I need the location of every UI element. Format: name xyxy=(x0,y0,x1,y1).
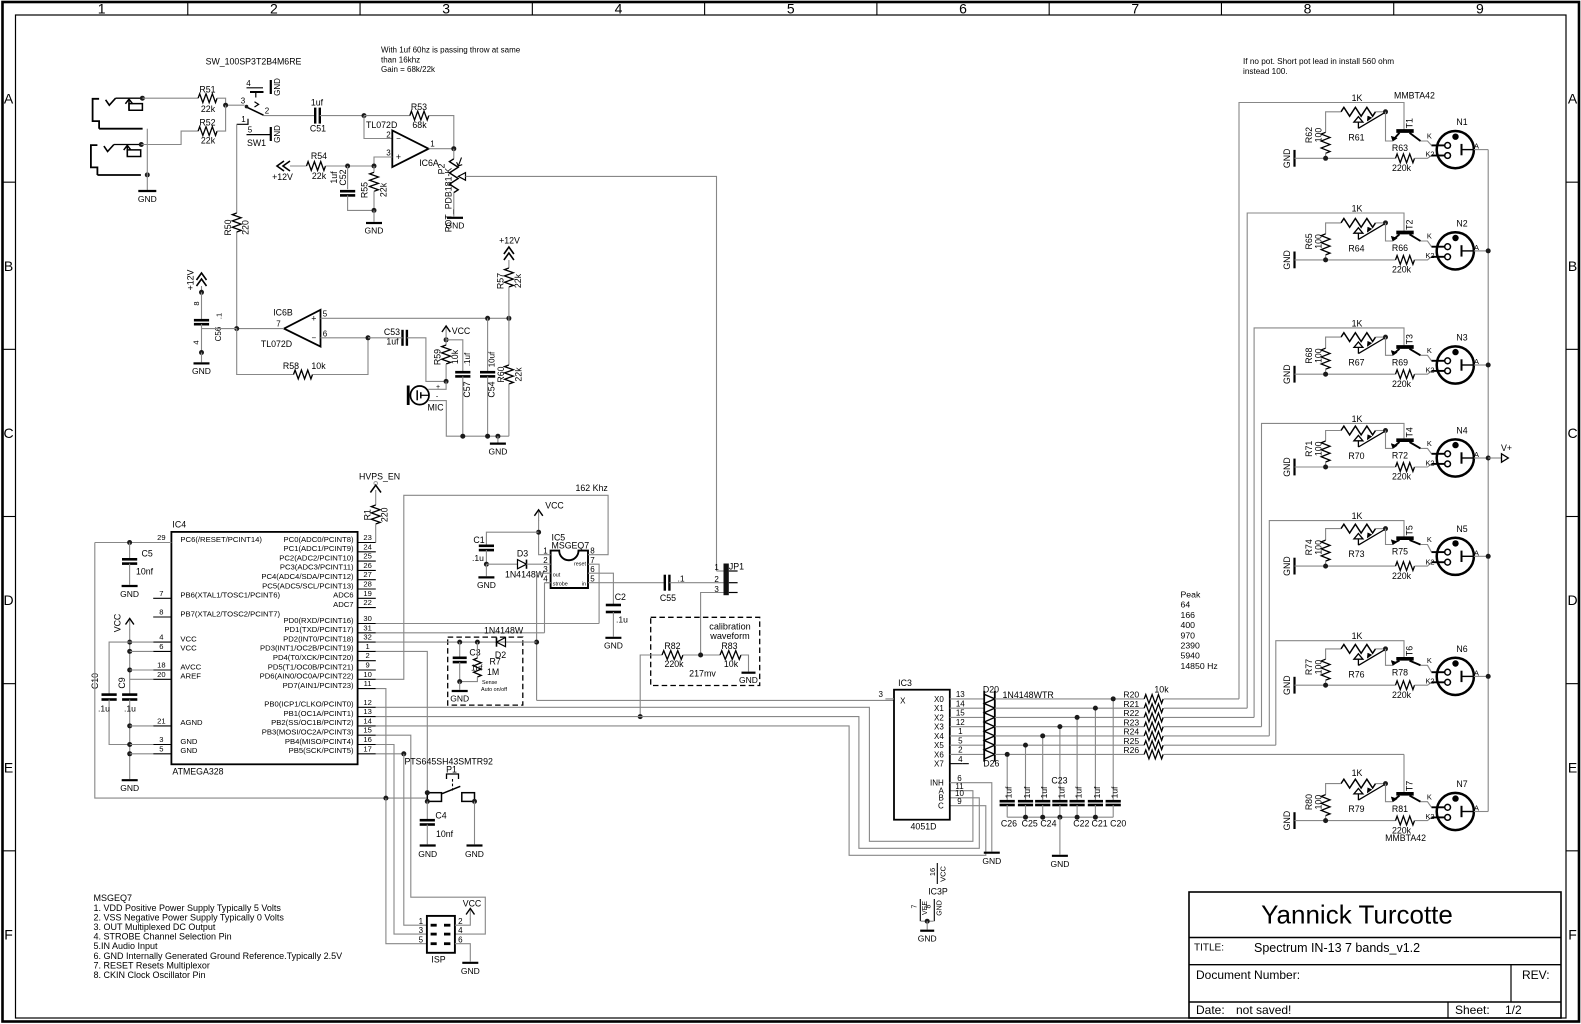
wire IC6A output to node xyxy=(429,148,454,150)
svg-text:GND: GND xyxy=(918,934,937,944)
ground calibration GND xyxy=(742,672,756,674)
svg-text:K2: K2 xyxy=(1425,251,1434,260)
frame column ticks top xyxy=(187,2,189,15)
ic IC5 MSGEQ7 body xyxy=(551,551,588,588)
connector audio jack J1 xyxy=(93,99,100,129)
wire tube anode channel 5 xyxy=(1462,555,1474,557)
node R82 R83 JP1 junction xyxy=(698,653,703,658)
svg-text:C: C xyxy=(938,801,944,810)
node AGND pin21 xyxy=(127,723,132,728)
resistor R26 xyxy=(1144,750,1163,759)
node mic plus xyxy=(444,379,449,384)
svg-text:N5: N5 xyxy=(1456,524,1467,534)
wire R220 to tube K2 channel 7 xyxy=(1415,817,1432,820)
svg-text:R69: R69 xyxy=(1392,358,1408,368)
svg-text:18: 18 xyxy=(157,661,165,670)
svg-text:IC3: IC3 xyxy=(898,678,912,688)
sense auto on-off dashed box xyxy=(448,637,523,705)
ic IC3 4051D body xyxy=(894,690,950,820)
ground jacks GND xyxy=(138,190,156,192)
svg-text:D2: D2 xyxy=(495,650,506,660)
capacitor C23 xyxy=(1059,727,1061,802)
ic IC4 right pin stubs and numbers xyxy=(358,542,376,544)
node IC6B output R50 xyxy=(234,326,239,331)
wire R26 to channel 7 xyxy=(1164,753,1404,755)
svg-text:R64: R64 xyxy=(1348,243,1364,253)
channel 4 top feed wire xyxy=(1262,423,1405,726)
svg-text:D3: D3 xyxy=(517,548,528,558)
svg-text:X7: X7 xyxy=(934,760,944,769)
power VCC flag at R59 xyxy=(445,326,447,337)
svg-text:R81: R81 xyxy=(1392,804,1408,814)
wire IC6B output xyxy=(237,328,284,330)
node R7 tap xyxy=(475,640,480,645)
svg-text:1uf: 1uf xyxy=(1039,786,1049,798)
svg-text:21: 21 xyxy=(157,716,165,725)
svg-text:C52: C52 xyxy=(338,169,348,185)
svg-text:T5: T5 xyxy=(1404,525,1414,535)
wire R220 to tube K2 channel 1 xyxy=(1415,156,1432,159)
svg-text:14: 14 xyxy=(363,716,371,725)
svg-text:K: K xyxy=(1427,439,1432,448)
svg-text:220k: 220k xyxy=(1392,379,1412,389)
wire switch pin2 to C51 xyxy=(264,115,316,117)
ground P2 GND xyxy=(453,193,455,217)
node C54 bottom xyxy=(485,434,490,439)
wire ISP pin2 to VCC xyxy=(455,919,470,926)
svg-text:100: 100 xyxy=(1314,660,1324,675)
svg-text:8. CKIN Clock Oscillator Pin: 8. CKIN Clock Oscillator Pin xyxy=(94,970,206,980)
svg-text:SW_100SP3T2B4M6RE: SW_100SP3T2B4M6RE xyxy=(206,57,302,67)
capacitor C24 xyxy=(1042,736,1044,801)
resistor R22 xyxy=(1144,713,1163,722)
wire jack sleeves to ground xyxy=(146,129,148,191)
wire IC6B pin5 bias rail xyxy=(321,317,509,319)
svg-text:6: 6 xyxy=(323,329,328,338)
wire C51 to opamp input node xyxy=(320,115,364,117)
wire capacitor ground rail xyxy=(1007,816,1113,818)
svg-text:1: 1 xyxy=(365,642,369,651)
svg-text:C51: C51 xyxy=(310,124,326,134)
svg-text:D: D xyxy=(1567,592,1577,608)
svg-text:R67: R67 xyxy=(1348,358,1364,368)
wire collector to tube K channel 4 xyxy=(1421,448,1432,453)
svg-text:3: 3 xyxy=(442,1,450,17)
svg-text:100: 100 xyxy=(1314,540,1324,555)
node R57 R60 junction xyxy=(506,316,511,321)
svg-text:N4: N4 xyxy=(1456,426,1467,436)
ground IC3P GND xyxy=(926,921,928,929)
resistor R20 xyxy=(1144,695,1163,704)
svg-text:F: F xyxy=(1568,926,1577,942)
svg-text:not saved!: not saved! xyxy=(1236,1003,1291,1017)
capacitor C10 xyxy=(109,642,130,695)
svg-text:PD4(T0/XCK/PCINT20): PD4(T0/XCK/PCINT20) xyxy=(273,653,354,662)
svg-text:64: 64 xyxy=(1181,600,1191,610)
svg-text:22k: 22k xyxy=(201,135,216,145)
wire ground rail channel 1 xyxy=(1295,157,1396,159)
node C52 top xyxy=(345,164,350,169)
capacitor C2 xyxy=(606,604,621,607)
resistor R1 xyxy=(371,505,380,524)
svg-text:+12V: +12V xyxy=(186,269,196,290)
svg-text:C22: C22 xyxy=(1073,818,1089,828)
wire pin6 xyxy=(130,650,154,652)
wire VCC to IC5 pin1 xyxy=(539,520,551,555)
connector JP1 xyxy=(724,564,729,596)
transistor T4 MMBTA42 xyxy=(1396,438,1413,442)
wire emitter to wiper channel 5 xyxy=(1386,529,1393,545)
channel 2 top feed wire xyxy=(1247,213,1404,708)
svg-text:K2: K2 xyxy=(1425,812,1434,821)
svg-text:K: K xyxy=(1427,346,1432,355)
wire ISP pin6 to ground xyxy=(455,944,470,962)
svg-text:C2: C2 xyxy=(615,592,626,602)
svg-text:5: 5 xyxy=(787,1,795,17)
svg-text:R77: R77 xyxy=(1304,659,1314,675)
svg-text:1uf: 1uf xyxy=(1074,786,1084,798)
svg-text:1uf: 1uf xyxy=(1022,786,1032,798)
svg-text:15: 15 xyxy=(363,726,371,735)
svg-text:24: 24 xyxy=(363,542,371,551)
svg-text:6. GND Internally Generated Gr: 6. GND Internally Generated Ground Refer… xyxy=(94,951,343,961)
svg-text:4. STROBE Channel Selection Pi: 4. STROBE Channel Selection Pin xyxy=(94,932,232,942)
svg-text:R58: R58 xyxy=(283,361,299,371)
svg-text:R78: R78 xyxy=(1392,668,1408,678)
capacitor C9 xyxy=(122,693,137,696)
power VCC flag at IC5 xyxy=(538,510,540,521)
svg-text:C5: C5 xyxy=(142,548,153,558)
svg-text:F: F xyxy=(4,926,13,942)
svg-text:220k: 220k xyxy=(1392,265,1412,275)
wire net RESET pin29 rail down xyxy=(95,543,428,799)
svg-text:GND: GND xyxy=(273,125,282,143)
svg-text:15: 15 xyxy=(956,709,965,718)
ground channel 3 GND sideways xyxy=(1293,366,1295,383)
potentiometer P2 POT_PDB181-K xyxy=(453,149,455,159)
svg-text:A: A xyxy=(1568,91,1578,107)
node AVCC pin18 xyxy=(127,668,132,673)
wire pin5 xyxy=(130,753,154,755)
diode D2 1N4148W xyxy=(497,638,506,647)
svg-text:+12V: +12V xyxy=(499,236,520,246)
svg-text:8: 8 xyxy=(159,608,163,617)
wire net PD3 to P1 xyxy=(376,651,428,792)
svg-text:1uf: 1uf xyxy=(311,98,324,108)
node pot wiper channel 4 xyxy=(1383,428,1388,433)
wire tube anode channel 3 xyxy=(1462,364,1474,366)
svg-text:22k: 22k xyxy=(513,273,523,288)
resistor R65 100 xyxy=(1326,223,1341,234)
node C5 top xyxy=(127,540,132,545)
op-amp IC6B xyxy=(284,310,321,347)
svg-text:1: 1 xyxy=(419,917,424,926)
resistor R83 xyxy=(720,651,741,660)
frame row ticks left and right xyxy=(2,181,16,183)
svg-text:166: 166 xyxy=(1181,610,1196,620)
svg-text:2390: 2390 xyxy=(1181,641,1200,651)
svg-text:R76: R76 xyxy=(1348,669,1364,679)
node R100 rail channel 4 xyxy=(1323,465,1328,470)
svg-text:C54: C54 xyxy=(487,381,497,397)
node R100 rail channel 2 xyxy=(1323,257,1328,262)
node anode bus channel 2 xyxy=(1486,248,1491,253)
svg-text:22: 22 xyxy=(363,598,371,607)
wire C53 left to pin6 node xyxy=(368,337,403,339)
node IC3P ground junction xyxy=(925,919,930,924)
svg-text:1uf: 1uf xyxy=(1110,786,1120,798)
svg-text:PC1(ADC1/PCINT9): PC1(ADC1/PCINT9) xyxy=(284,544,354,553)
svg-text:162 Khz: 162 Khz xyxy=(576,483,608,493)
svg-text:7: 7 xyxy=(276,320,281,329)
svg-text:X5: X5 xyxy=(934,741,944,750)
capacitor C5 xyxy=(129,543,131,560)
wire IC5 pin4 strobe to pin31 net xyxy=(545,582,551,584)
svg-text:R79: R79 xyxy=(1348,804,1364,814)
channel 5 top feed wire xyxy=(1269,521,1404,736)
svg-text:10k: 10k xyxy=(724,659,739,669)
ground channel 6 GND sideways xyxy=(1293,677,1295,694)
svg-text:.1: .1 xyxy=(215,313,224,319)
wire pin3 xyxy=(130,744,154,746)
transistor T6 MMBTA42 xyxy=(1396,657,1413,661)
ground channel 5 GND sideways xyxy=(1293,558,1295,575)
svg-text:220k: 220k xyxy=(1392,472,1412,482)
resistor R77 100 xyxy=(1326,649,1341,659)
svg-text:SW1: SW1 xyxy=(247,138,266,148)
svg-text:GND: GND xyxy=(488,446,507,456)
svg-text:R55: R55 xyxy=(360,182,370,198)
wire collector to tube K channel 7 xyxy=(1421,802,1432,808)
svg-text:217mv: 217mv xyxy=(689,669,716,679)
capacitor C51 xyxy=(314,108,316,124)
wire collector to tube K channel 6 xyxy=(1421,665,1432,672)
svg-text:970: 970 xyxy=(1181,630,1196,640)
ground C4 GND xyxy=(420,844,436,846)
svg-text:R62: R62 xyxy=(1304,127,1314,143)
svg-text:C4: C4 xyxy=(435,810,446,820)
svg-text:R57: R57 xyxy=(496,273,506,289)
svg-text:K2: K2 xyxy=(1425,677,1434,686)
node anode bus channel 6 xyxy=(1486,674,1491,679)
junction jack sleeves xyxy=(145,172,150,177)
resistor R23 xyxy=(1144,722,1163,731)
svg-text:2: 2 xyxy=(958,746,963,755)
svg-text:9: 9 xyxy=(957,797,962,806)
svg-text:.1u: .1u xyxy=(616,615,628,625)
ground switch pin5 GND sideways xyxy=(270,127,272,141)
svg-text:GND: GND xyxy=(180,746,198,755)
wire R220 to tube K2 channel 3 xyxy=(1415,371,1432,374)
wire X6 line diode to resistor R26 xyxy=(995,753,1144,755)
wire R54 to IC6A pin3 xyxy=(326,157,393,166)
wire pin4 xyxy=(130,641,154,643)
wire tube anode channel 2 xyxy=(1462,250,1474,252)
svg-text:PD2(INT0/PCINT18): PD2(INT0/PCINT18) xyxy=(283,634,354,643)
svg-text:16: 16 xyxy=(928,868,937,876)
calibration waveform dashed box xyxy=(651,617,760,685)
svg-text:D20: D20 xyxy=(983,684,999,694)
wire VCC rail IC4 xyxy=(129,629,131,695)
diode D3 1N4148W xyxy=(486,563,517,565)
svg-text:Sense: Sense xyxy=(482,680,497,686)
junction jack J1 tip xyxy=(140,96,145,101)
svg-text:PD0(RXD/PCINT16): PD0(RXD/PCINT16) xyxy=(284,616,354,625)
svg-text:K: K xyxy=(1427,792,1432,801)
svg-text:N1: N1 xyxy=(1456,117,1467,127)
ground C2 GND xyxy=(605,637,621,639)
node C56 bottom xyxy=(199,350,204,355)
ground switch pin4 GND sideways xyxy=(270,80,272,94)
svg-text:VCC: VCC xyxy=(452,326,471,336)
wire switch pin1 down to IC6B output node xyxy=(236,124,238,213)
svg-text:GND: GND xyxy=(120,589,139,599)
wire X3 line diode to resistor R23 xyxy=(995,726,1144,728)
svg-text:MSGEQ7: MSGEQ7 xyxy=(552,540,590,550)
svg-text:IC3P: IC3P xyxy=(928,887,948,897)
wire IC5 pin3 out vertical to mux X xyxy=(537,573,551,700)
svg-text:12: 12 xyxy=(956,718,965,727)
wire net A pin12 to IC3 xyxy=(376,707,973,841)
svg-text:GND: GND xyxy=(739,675,758,685)
svg-text:12: 12 xyxy=(363,698,371,707)
capacitor C22 xyxy=(1076,717,1078,801)
svg-text:3: 3 xyxy=(159,735,163,744)
svg-text:1K: 1K xyxy=(1352,204,1363,214)
ground C56 GND xyxy=(201,353,203,363)
svg-text:2. VSS Negative Power Supply T: 2. VSS Negative Power Supply Typically 0… xyxy=(94,912,285,922)
node IC6A output xyxy=(451,146,456,151)
trimmer potentiometer R73 1K xyxy=(1341,524,1376,533)
capacitor C52 xyxy=(347,166,349,189)
wires R20-R25 to channel feeders xyxy=(1164,698,1239,700)
nixie tube N4 IN-13 xyxy=(1437,439,1474,476)
node P1 left pad bottom xyxy=(425,799,430,804)
svg-text:1N4148W: 1N4148W xyxy=(505,569,545,579)
svg-text:R59: R59 xyxy=(433,349,443,365)
node R55 C52 bottom xyxy=(372,208,377,213)
wire reset pin29 to left rail xyxy=(95,542,172,544)
svg-text:GND: GND xyxy=(461,966,480,976)
resistor R59 xyxy=(445,337,447,345)
wire AREF pin20 xyxy=(130,678,154,680)
svg-text:31: 31 xyxy=(363,623,371,632)
svg-text:14850 Hz: 14850 Hz xyxy=(1181,661,1218,671)
resistor R78 220k xyxy=(1396,681,1415,690)
wire tube anode channel 1 xyxy=(1462,149,1474,151)
wire ground rail channel 7 xyxy=(1295,820,1396,822)
svg-text:C9: C9 xyxy=(117,677,127,688)
resistor R82 xyxy=(640,655,662,717)
svg-text:X4: X4 xyxy=(934,732,944,741)
svg-text:5: 5 xyxy=(419,936,424,945)
svg-text:VCC: VCC xyxy=(113,613,123,632)
svg-text:out: out xyxy=(553,572,561,578)
svg-text:GND: GND xyxy=(1282,364,1292,384)
wire R83 to ground xyxy=(741,655,749,672)
svg-text:AREF: AREF xyxy=(180,672,201,681)
svg-text:R75: R75 xyxy=(1392,547,1408,557)
resistor R74 100 xyxy=(1326,529,1341,541)
svg-text:5: 5 xyxy=(248,126,253,135)
svg-text:.1u: .1u xyxy=(124,704,136,714)
power flag V+ xyxy=(1488,457,1501,459)
svg-text:100: 100 xyxy=(1314,128,1324,143)
wire R220 to tube K2 channel 6 xyxy=(1415,682,1432,685)
svg-text:GND: GND xyxy=(418,849,437,859)
svg-text:R60: R60 xyxy=(496,366,506,382)
svg-text:C24: C24 xyxy=(1040,818,1056,828)
svg-text:2: 2 xyxy=(265,107,270,116)
svg-text:30: 30 xyxy=(363,614,371,623)
svg-text:R73: R73 xyxy=(1348,549,1364,559)
svg-text:220k: 220k xyxy=(1392,690,1412,700)
svg-text:3: 3 xyxy=(386,148,391,157)
svg-text:PC3(ADC3/PCINT11): PC3(ADC3/PCINT11) xyxy=(280,563,354,572)
svg-text:PC0(ADC0/PCINT8): PC0(ADC0/PCINT8) xyxy=(284,535,354,544)
microphone MIC xyxy=(410,386,429,405)
wire X4 line diode to resistor R24 xyxy=(995,735,1144,737)
svg-text:MIC: MIC xyxy=(427,402,444,412)
channel 3 top feed wire xyxy=(1254,328,1404,718)
svg-text:C3: C3 xyxy=(469,647,480,657)
svg-text:−: − xyxy=(396,134,401,143)
wire SCK vertical to ISP pin1 xyxy=(404,754,427,925)
svg-text:C21: C21 xyxy=(1092,818,1108,828)
svg-text:4: 4 xyxy=(458,926,463,935)
svg-text:2: 2 xyxy=(270,1,278,17)
svg-text:10k: 10k xyxy=(450,349,460,364)
svg-text:K: K xyxy=(1427,656,1432,665)
svg-text:+: + xyxy=(396,152,401,162)
svg-text:400: 400 xyxy=(1181,620,1196,630)
svg-text:220k: 220k xyxy=(1392,163,1412,173)
node C1 bottom D3 xyxy=(484,562,489,567)
svg-text:R80: R80 xyxy=(1304,794,1314,810)
svg-text:7: 7 xyxy=(159,589,163,598)
svg-text:PD3(INT1/OC2B/PCINT19): PD3(INT1/OC2B/PCINT19) xyxy=(260,644,354,653)
wire P2 wiper to JP1 pin1 xyxy=(466,176,717,571)
svg-text:GND: GND xyxy=(982,856,1001,866)
svg-text:220k: 220k xyxy=(1392,571,1412,581)
wire net X out to IC3 pin3 xyxy=(537,699,894,701)
resistor R54 xyxy=(307,162,326,171)
svg-text:7. RESET Resets Multiplexor: 7. RESET Resets Multiplexor xyxy=(94,960,210,970)
svg-text:PD7(AIN1/PCINT23): PD7(AIN1/PCINT23) xyxy=(283,681,354,690)
svg-text:GND: GND xyxy=(120,783,139,793)
svg-text:PB5(SCK/PCINT5): PB5(SCK/PCINT5) xyxy=(289,746,354,755)
svg-text:X6: X6 xyxy=(934,750,944,759)
svg-text:R65: R65 xyxy=(1304,233,1314,249)
wire R58 to IC6B pin6 node xyxy=(313,338,369,375)
svg-text:1uf: 1uf xyxy=(1092,786,1102,798)
svg-text:PC5(ADC5/SCL/PCINT13): PC5(ADC5/SCL/PCINT13) xyxy=(262,581,354,590)
svg-text:T6: T6 xyxy=(1404,646,1414,656)
resistor R62 100 xyxy=(1326,112,1341,133)
svg-text:R82: R82 xyxy=(664,641,680,651)
ground C1 GND xyxy=(485,564,487,576)
ground C3 GND xyxy=(459,682,461,690)
svg-text:2: 2 xyxy=(386,130,391,139)
wire 162khz IC5 pin8 to PD6 clock line xyxy=(376,495,608,679)
wire collector to tube K channel 3 xyxy=(1421,355,1432,361)
svg-text:4: 4 xyxy=(159,633,163,642)
capacitor C56 with TL072 power pins 8 and 4 xyxy=(201,292,203,320)
svg-text:10nf: 10nf xyxy=(436,829,454,839)
svg-text:R72: R72 xyxy=(1392,451,1408,461)
svg-text:Spectrum IN-13 7 bands_v1.2: Spectrum IN-13 7 bands_v1.2 xyxy=(1254,941,1420,955)
node C3 R7 bottom xyxy=(457,679,462,684)
